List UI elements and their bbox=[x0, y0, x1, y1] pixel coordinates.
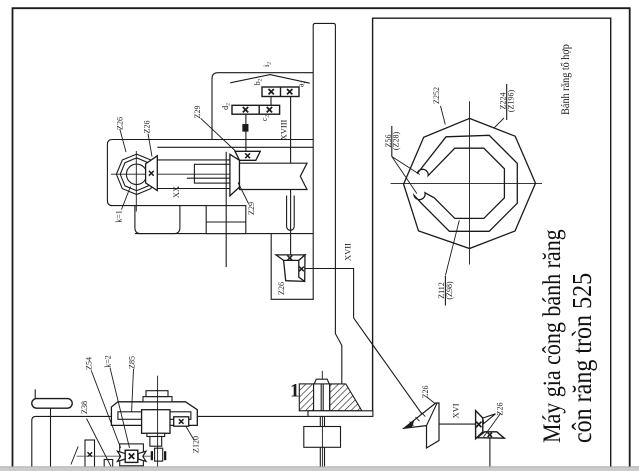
coupling on d2 shaft bbox=[243, 125, 248, 132]
shaft XVIII bbox=[290, 97, 292, 255]
cradle right arm bbox=[169, 412, 191, 420]
slide bar with chevron end bbox=[240, 163, 308, 189]
combined gear centerline vertical bbox=[469, 101, 471, 264]
svg-text:Z38: Z38 bbox=[80, 401, 89, 414]
svg-text:Z29: Z29 bbox=[193, 106, 202, 119]
svg-text:Z26: Z26 bbox=[421, 386, 430, 399]
gear teeth ticks bbox=[410, 413, 426, 426]
shaft down from bevel bbox=[489, 438, 491, 467]
svg-text:Z54: Z54 bbox=[85, 357, 94, 370]
sleeve key line bbox=[187, 177, 240, 179]
svg-text:Z252: Z252 bbox=[432, 87, 441, 104]
svg-text:Z26: Z26 bbox=[277, 282, 286, 295]
inclined cutter spindle shaft bbox=[354, 318, 427, 420]
lower rounded block bbox=[135, 206, 180, 234]
worm wheel bore circle bbox=[126, 164, 146, 184]
shaft XVII bbox=[305, 269, 354, 318]
leader Z26 slab bbox=[428, 398, 436, 404]
splined coupling bbox=[155, 448, 163, 461]
svg-text:XVI: XVI bbox=[451, 403, 461, 418]
svg-text:Z26: Z26 bbox=[116, 117, 125, 130]
spiral gear band Z224/Z112 bbox=[414, 135, 517, 231]
label leader Z26 bevel pair bbox=[484, 414, 501, 438]
housing base line bbox=[135, 233, 313, 235]
bevel gear Z26 on XVIII bottom bbox=[276, 255, 305, 282]
shaft XX upper line bbox=[157, 159, 230, 161]
worm casing bbox=[120, 444, 144, 466]
svg-text:XX: XX bbox=[171, 186, 181, 198]
svg-text:Z26: Z26 bbox=[495, 403, 504, 416]
change-gear box outline bbox=[212, 73, 313, 140]
worm wheel Z54 with worm bbox=[117, 451, 125, 461]
svg-text:d2: d2 bbox=[221, 103, 232, 110]
svg-text:c2: c2 bbox=[260, 115, 271, 122]
combined gear centerline horizontal bbox=[391, 182, 542, 184]
svg-text:Z120: Z120 bbox=[191, 436, 200, 453]
svg-text:k=1: k=1 bbox=[115, 210, 124, 223]
bevel gear Z26 inclined slab bbox=[404, 403, 439, 448]
leaders top-left Z26 Z26 k1 bbox=[87, 106, 505, 467]
gear pair c2-d2 bbox=[232, 105, 280, 114]
svg-text:b2: b2 bbox=[253, 78, 264, 85]
table bar bbox=[308, 411, 373, 417]
bevel gear Z29 vertical axis bbox=[235, 151, 260, 160]
small labels rotated bbox=[80, 62, 515, 453]
handwheel bbox=[32, 399, 72, 409]
combined gear outer octagon Z252 bbox=[404, 118, 536, 248]
svg-text:Z29: Z29 bbox=[247, 202, 256, 215]
gear pair a2-b2 bbox=[262, 87, 299, 97]
cutter hatched block right bbox=[330, 384, 362, 411]
shaft d2 down bbox=[245, 114, 247, 151]
housing inner top line bbox=[157, 146, 313, 148]
handwheel stem bbox=[50, 408, 52, 467]
svg-text:Bánh răng tổ hợp: Bánh răng tổ hợp bbox=[559, 44, 572, 115]
svg-text:XVII: XVII bbox=[343, 243, 353, 261]
svg-text:a2: a2 bbox=[297, 81, 308, 88]
drive shaft bottom bbox=[77, 455, 151, 457]
gear head housing bbox=[107, 140, 313, 206]
cutter axis stub bbox=[321, 371, 323, 379]
right panel box (Banh rang to hop) bbox=[373, 18, 611, 467]
svg-text:(Z98): (Z98) bbox=[445, 281, 454, 300]
gear head centerline horizontal bbox=[111, 173, 237, 175]
shaft XX lower line bbox=[157, 188, 230, 190]
leaders cradle labels bbox=[91, 370, 120, 448]
tab axis shaft bbox=[225, 152, 227, 267]
svg-text:Z26: Z26 bbox=[143, 121, 152, 134]
column cap and left column edge bbox=[271, 234, 314, 300]
cradle left arm Z85 bbox=[118, 412, 142, 420]
leader line far left bbox=[71, 446, 78, 464]
cutter dome cap bbox=[314, 379, 329, 384]
connector shaft b2-c2 bbox=[270, 97, 272, 106]
svg-text:i2: i2 bbox=[262, 62, 273, 67]
bearing caps bbox=[143, 397, 172, 402]
bearing tab under housing bbox=[206, 206, 246, 234]
svg-text:Z85: Z85 bbox=[128, 356, 137, 369]
rotation arrow bbox=[403, 420, 415, 428]
machine column outline bbox=[313, 23, 342, 384]
cross mark flag bbox=[149, 171, 154, 176]
svg-text:(Z196): (Z196) bbox=[506, 90, 515, 113]
gear Z120 bbox=[174, 417, 189, 426]
worm wheel outer octagon Z26 bbox=[116, 154, 156, 194]
gear Z38 box bbox=[85, 440, 95, 467]
svg-text:XVIII: XVIII bbox=[279, 119, 289, 140]
bench line with rounded panel corner bbox=[32, 416, 308, 466]
bevel pair Z26 vertical bbox=[476, 411, 483, 439]
cradle hat bbox=[111, 402, 197, 426]
cross marks change gears bbox=[269, 89, 274, 94]
telescopic fork on XVIII bbox=[287, 196, 295, 231]
svg-text:(Z28): (Z28) bbox=[392, 132, 401, 151]
svg-text:côn răng tròn 525: côn răng tròn 525 bbox=[567, 273, 598, 443]
small gear box bottom bbox=[104, 460, 113, 468]
leaders polygon labels bbox=[441, 106, 446, 125]
shaft XVI bbox=[439, 423, 476, 425]
bevel gear flag Z26 bbox=[146, 156, 158, 191]
cradle steps bbox=[147, 433, 165, 436]
sliding sleeve on XX bbox=[194, 164, 236, 183]
svg-text:Máy gia công bánh răng: Máy gia công bánh răng bbox=[539, 229, 567, 443]
cutter hatched block left bbox=[299, 384, 313, 411]
fraction rules bbox=[506, 84, 508, 120]
adjustment tent i2 bbox=[230, 75, 310, 84]
svg-text:k=2: k=2 bbox=[104, 355, 113, 368]
bevel gear Z29 horizontal axis bbox=[230, 154, 240, 196]
cradle axis bbox=[157, 376, 159, 467]
center block bbox=[142, 410, 170, 434]
work spindle below table bbox=[319, 416, 321, 426]
bottom gray strip bbox=[0, 467, 639, 471]
leaders Z29 bbox=[201, 118, 237, 152]
svg-text:1: 1 bbox=[290, 380, 300, 401]
cutter spindle bbox=[314, 384, 330, 411]
worm wheel middle octagon bbox=[120, 158, 153, 191]
gear head centerline vertical bbox=[135, 151, 137, 212]
